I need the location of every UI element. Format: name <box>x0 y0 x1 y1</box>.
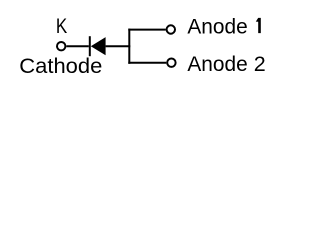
cathode terminal circle K <box>57 42 65 50</box>
svg-text:K: K <box>56 14 68 38</box>
anode 1 terminal circle <box>167 25 175 33</box>
svg-text:Anode: Anode <box>187 52 247 76</box>
wire bottom branch to anode 2 <box>128 62 166 64</box>
wire diode to fork <box>106 45 131 47</box>
fork vertical wire <box>128 29 130 64</box>
diode D1 anode triangle <box>91 37 106 55</box>
anode 2 terminal circle <box>167 59 175 67</box>
wire cathode-terminal to diode <box>66 45 88 47</box>
svg-text:2: 2 <box>254 52 266 76</box>
diode D1 cathode bar <box>89 36 91 56</box>
svg-text:Cathode: Cathode <box>19 54 102 78</box>
svg-text:Anode: Anode <box>187 14 247 38</box>
label pin digit 1 <box>256 18 261 33</box>
wire top branch to anode 1 <box>128 29 166 31</box>
